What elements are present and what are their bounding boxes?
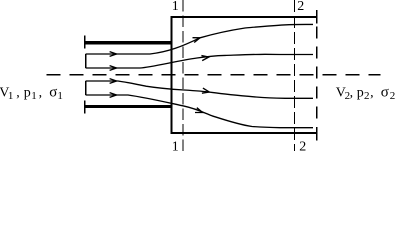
duct top wall	[171, 16, 318, 18]
arrow s1 duct	[193, 38, 201, 43]
section line 2 (dashed vertical)	[294, 0, 296, 151]
arrow s2 duct	[201, 56, 208, 61]
pipe left cap top	[84, 35, 86, 48]
svg-text:1: 1	[172, 0, 179, 14]
svg-text:1: 1	[8, 90, 13, 102]
pipe bottom wall	[85, 105, 173, 108]
duct right end cap top	[316, 10, 318, 24]
inlet bracket bottom	[85, 81, 87, 95]
streamline s3	[86, 81, 313, 98]
duct right dashed break line	[316, 27, 318, 127]
duct right end cap bottom	[316, 127, 318, 141]
svg-text:,: ,	[350, 85, 354, 100]
streamline s1	[86, 24, 313, 54]
expansion step face (full vertical)	[170, 16, 172, 134]
svg-text:σ: σ	[49, 84, 57, 100]
pipe left cap bottom	[84, 100, 86, 113]
svg-text:p: p	[357, 85, 364, 100]
svg-text:2: 2	[299, 140, 306, 151]
svg-text:1: 1	[31, 90, 37, 102]
svg-text:σ: σ	[381, 84, 389, 100]
duct bottom wall	[171, 132, 318, 134]
inlet bracket top	[85, 54, 87, 68]
arrow s3 duct	[202, 88, 209, 93]
left label V1 p1 sigma1	[0, 84, 63, 102]
svg-text:,: ,	[16, 85, 20, 100]
svg-text:,: ,	[370, 85, 374, 100]
arrow s4 duct	[195, 108, 203, 113]
streamline s4	[86, 95, 313, 128]
arrow s2 pipe	[110, 66, 117, 71]
svg-text:2: 2	[297, 0, 304, 14]
pipe top wall	[85, 41, 173, 44]
arrow s4 pipe	[110, 93, 117, 98]
arrow s3 pipe	[110, 79, 117, 84]
right label V2 p2 sigma2	[336, 84, 396, 102]
section line 1 (dashed vertical)	[182, 0, 184, 151]
svg-text:2: 2	[390, 90, 396, 102]
streamline s2	[86, 54, 313, 68]
svg-text:1: 1	[57, 90, 63, 102]
svg-text:2: 2	[364, 90, 370, 102]
svg-text:p: p	[24, 85, 31, 100]
svg-text:,: ,	[39, 85, 43, 100]
svg-text:1: 1	[172, 140, 179, 151]
centerline (dashed horizontal axis)	[47, 74, 381, 76]
arrow s1 pipe	[110, 52, 117, 57]
